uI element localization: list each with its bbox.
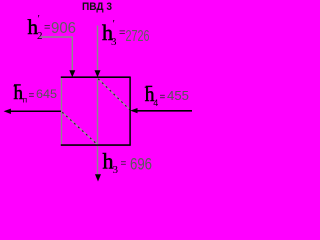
arrowhead feedwater inlet	[130, 108, 137, 113]
svg-text:455: 455	[167, 89, 189, 103]
svg-text:′: ′	[113, 18, 115, 30]
wire: condensate line through box and below (vertical)	[97, 79, 99, 175]
wire: drain inlet line h2' (L-shaped)	[39, 37, 72, 71]
dashed diagonal upper (steam path)	[98, 79, 129, 110]
svg-text:=: =	[119, 27, 125, 39]
heater box: right edge	[129, 77, 131, 146]
svg-text:=: =	[44, 22, 50, 34]
svg-text:=: =	[160, 92, 166, 103]
svg-text:ПВД 3: ПВД 3	[82, 1, 112, 13]
wire: steam inlet line h3' (vertical above box)	[97, 26, 99, 71]
heater box ПВД 3: left edge (gray)	[61, 77, 63, 146]
heater box: bottom edge	[61, 144, 131, 146]
label h3' = 2726	[102, 18, 150, 48]
wire: feedwater outlet line (left arrow)	[8, 110, 61, 112]
svg-text:′: ′	[38, 13, 40, 25]
label h̄п = 645 (left)	[14, 83, 58, 104]
arrowhead steam inlet into box top	[95, 70, 101, 77]
label h2' = 906	[28, 13, 77, 42]
svg-text:=: =	[121, 158, 127, 169]
arrowhead drain inlet into box top	[69, 70, 75, 77]
svg-text:696: 696	[130, 155, 152, 174]
arrowhead drain outlet bottom	[95, 174, 101, 181]
svg-text:3: 3	[113, 164, 119, 176]
svg-text:645: 645	[36, 87, 57, 101]
label h̄4 = 455 (right)	[145, 85, 189, 108]
svg-text:4: 4	[153, 98, 158, 108]
svg-text:п: п	[23, 95, 27, 104]
svg-text:2726: 2726	[126, 28, 150, 45]
label h3 = 696 (bottom)	[103, 149, 153, 177]
svg-text:3: 3	[111, 36, 117, 48]
svg-text:906: 906	[51, 20, 76, 37]
arrowhead feedwater outlet	[4, 109, 11, 114]
wire: feedwater inlet line (right arrow)	[136, 110, 192, 112]
dashed diagonal lower (drain path)	[62, 112, 97, 144]
svg-text:2: 2	[37, 30, 43, 42]
heater box: top edge	[61, 76, 131, 78]
svg-text:=: =	[29, 90, 35, 101]
